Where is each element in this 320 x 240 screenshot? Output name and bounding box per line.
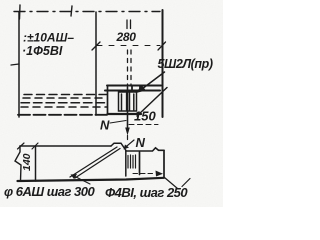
- section anchor bump: [111, 143, 126, 150]
- mid vertical line: [95, 12, 97, 115]
- dimension line 280: [97, 45, 160, 47]
- left boundary line: [18, 12, 20, 117]
- force line tail: [127, 136, 129, 140]
- dim tick section left: [18, 143, 25, 149]
- tick on top line left: [19, 5, 22, 19]
- bent mesh diagonal 2: [75, 149, 120, 179]
- leader to shag300 text: [73, 176, 90, 185]
- mesh dashed row 2: [23, 97, 107, 99]
- mesh section hatch: [128, 155, 136, 168]
- section divider line: [35, 146, 37, 181]
- section top edge right: [126, 148, 164, 151]
- slash after 250: [182, 179, 190, 187]
- leader to shag250 text: [165, 178, 178, 189]
- left boundary foot: [11, 64, 19, 65]
- leader diagonal to mesh label: [140, 72, 165, 91]
- leader from N section: [125, 140, 135, 148]
- mesh dashed row 1: [24, 94, 107, 96]
- detail plate top line 1: [107, 85, 161, 87]
- section right edge: [163, 150, 165, 177]
- detail plate top line 2: [105, 89, 160, 91]
- dim tick left: [92, 42, 100, 50]
- anchor inner box: [119, 92, 137, 111]
- detail plate left edge: [107, 86, 109, 115]
- section top edge left: [20, 145, 111, 147]
- joint vertical 1: [125, 151, 127, 177]
- anchor hatch strokes: [122, 93, 134, 110]
- dash-dot under 150: [129, 124, 158, 126]
- dim tick section divider: [32, 143, 38, 149]
- hidden double dashed line upper: [126, 20, 128, 29]
- svg-text:N: N: [136, 135, 146, 150]
- hidden dash above bottom edge: [133, 173, 155, 175]
- top boundary dash-dot line: [14, 11, 160, 13]
- svg-text:150: 150: [134, 109, 156, 124]
- arrowhead shag300: [71, 174, 78, 179]
- arrowhead shag250: [156, 171, 164, 177]
- force centerline N: [127, 87, 129, 128]
- svg-text:280: 280: [116, 30, 137, 44]
- mesh dashed row 4: [21, 106, 107, 108]
- hidden double dashed line lower: [127, 50, 129, 86]
- svg-text:140: 140: [21, 153, 33, 171]
- svg-text:N: N: [100, 118, 110, 133]
- section left break line: [15, 146, 21, 181]
- mesh dashed row 3: [21, 102, 107, 104]
- section bottom edge: [18, 178, 165, 181]
- leader from N label: [110, 121, 126, 124]
- svg-text:φ 6АШ шаг 300: φ 6АШ шаг 300: [4, 184, 96, 199]
- force arrowhead: [125, 128, 130, 136]
- svg-text:·1Ф5ВI: ·1Ф5ВI: [22, 44, 63, 58]
- mesh band bottom row: [18, 114, 107, 116]
- chamfer diagonal: [137, 88, 167, 117]
- joint vertical 2: [139, 152, 141, 175]
- dim tick right: [158, 42, 166, 50]
- svg-text:5Ш2Л(пр): 5Ш2Л(пр): [158, 57, 213, 71]
- arrowhead N section: [124, 145, 130, 150]
- leader arrowhead at plate: [136, 85, 146, 93]
- tick on top line mid: [71, 6, 72, 16]
- svg-text::±10АШ–: :±10АШ–: [23, 31, 74, 45]
- detail plate bottom edge: [108, 113, 142, 115]
- connector stubs between top lines: [132, 86, 140, 91]
- svg-text:Ф4ВI, шаг 250: Ф4ВI, шаг 250: [105, 185, 188, 200]
- right boundary line: [162, 10, 164, 117]
- bent mesh diagonal 1: [70, 147, 117, 177]
